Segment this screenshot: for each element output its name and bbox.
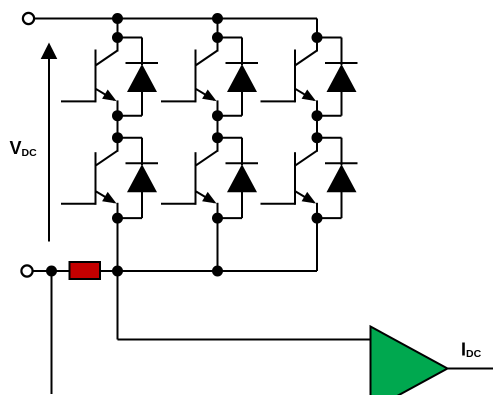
svg-text:IDC: IDC <box>461 340 482 361</box>
svg-text:VDC: VDC <box>10 138 38 159</box>
